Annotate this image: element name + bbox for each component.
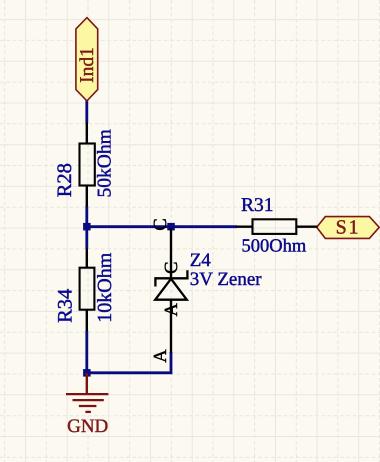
wire: bottom horizontal to zener [86,352,172,373]
svg-text:R28: R28 [54,163,76,197]
svg-text:Z4: Z4 [190,250,212,271]
svg-text:S1: S1 [336,216,361,238]
junction dot at R28/R31 node [83,223,91,231]
resistor R28 [80,123,95,207]
svg-text:C: C [162,262,182,274]
port S1 [317,216,380,238]
port Ind1 [76,18,98,101]
svg-text:A: A [151,349,171,363]
svg-text:500Ohm: 500Ohm [242,237,307,257]
svg-text:R34: R34 [55,289,77,323]
junction dot at ground node [83,369,91,377]
svg-text:R31: R31 [241,195,274,216]
svg-text:C: C [151,218,171,230]
wire: R34 pin to bottom junction [85,331,88,374]
svg-text:A: A [162,302,182,316]
svg-text:50kOhm: 50kOhm [95,129,116,197]
wire: R28 pin through junction to R34 pin [85,206,88,249]
resistor R34 [80,249,95,332]
svg-text:Ind1: Ind1 [77,47,98,83]
junction dot at zener cathode node [167,223,175,231]
resistor R31 [236,219,318,234]
wire: port Ind1 to R28 pin [85,100,88,123]
svg-text:3V Zener: 3V Zener [190,269,263,290]
svg-text:GND: GND [67,416,108,437]
ground GND [66,373,108,412]
zener diode Z4 [155,228,187,353]
svg-text:10kOhm: 10kOhm [94,252,116,322]
wire: horizontal junction to R31 pin [86,225,238,228]
